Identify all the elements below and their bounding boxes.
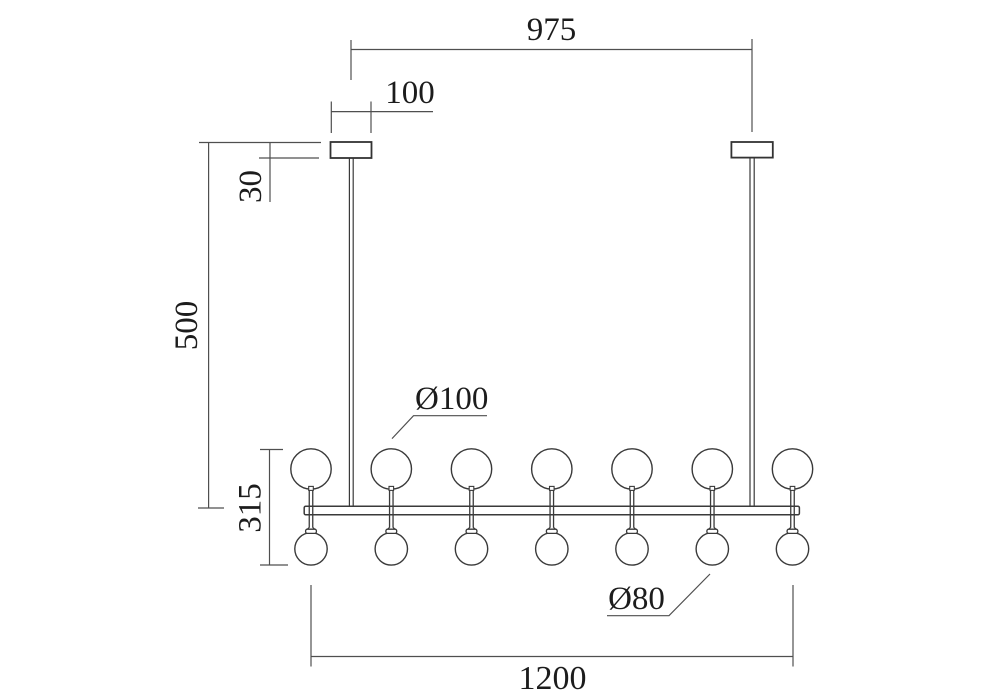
left ceiling canopy	[331, 142, 372, 158]
top stem cap 3	[469, 486, 474, 490]
svg-text:500: 500	[169, 301, 205, 351]
svg-text:30: 30	[233, 170, 269, 203]
lamp stem 4 (through bar)	[548, 489, 556, 530]
extension line from canopy bottom	[259, 157, 319, 159]
svg-text:1200: 1200	[519, 660, 587, 697]
top globe 2 (Ø100)	[371, 449, 411, 489]
dimension 30: line	[269, 143, 271, 203]
dimension 500: line	[208, 143, 210, 508]
bottom globe 2 (Ø80)	[375, 533, 407, 565]
lamp stem 6 (through bar)	[708, 489, 716, 530]
leader for Ø80	[607, 574, 710, 616]
dimension 1200: left extension line	[310, 585, 312, 667]
top globe 1 (Ø100)	[291, 449, 331, 489]
bottom globe 5 (Ø80)	[616, 533, 648, 565]
dimension 315: line	[269, 450, 271, 566]
left suspension rod	[349, 158, 353, 506]
top stem cap 6	[710, 486, 715, 490]
bottom globe collar 2	[386, 529, 397, 533]
top stem cap 5	[630, 486, 635, 490]
dimension 975: left extension tick	[350, 40, 352, 80]
dimension 100: left extension tick	[330, 102, 332, 134]
lamp stem 2 (through bar)	[387, 489, 395, 530]
dimension 315: top extension line	[260, 449, 283, 451]
svg-text:100: 100	[385, 75, 435, 111]
bottom globe collar 4	[546, 529, 557, 533]
leader for Ø100	[392, 416, 487, 439]
svg-text:315: 315	[233, 483, 269, 533]
lamp stem 3 (through bar)	[468, 489, 476, 530]
svg-text:Ø80: Ø80	[608, 581, 665, 617]
svg-text:Ø100: Ø100	[415, 381, 488, 417]
bottom globe 6 (Ø80)	[696, 533, 728, 565]
dimension 315: bottom extension line	[260, 564, 288, 566]
dimension 1200: right extension line	[792, 585, 794, 667]
top globe 7 (Ø100)	[772, 449, 812, 489]
dimension 975: right extension line	[751, 39, 753, 132]
bottom globe collar 1	[306, 529, 317, 533]
extension line from canopy top	[199, 142, 321, 144]
top globe 6 (Ø100)	[692, 449, 732, 489]
right suspension rod	[750, 158, 754, 507]
dimension 1200: line	[311, 656, 793, 658]
dimension 100: right extension tick	[370, 102, 372, 134]
top stem cap 2	[389, 486, 394, 490]
dimension 975: line	[351, 49, 752, 51]
bottom globe collar 6	[707, 529, 718, 533]
bottom globe 1 (Ø80)	[295, 533, 327, 565]
dimension 500: bottom tick	[198, 507, 224, 509]
bottom globe collar 5	[627, 529, 638, 533]
lamp stem 7 (through bar)	[789, 489, 797, 530]
top stem cap 1	[309, 486, 314, 490]
lamp stem 1 (through bar)	[307, 489, 315, 530]
bottom globe collar 7	[787, 529, 798, 533]
horizontal bar	[304, 506, 799, 515]
bottom globe collar 3	[466, 529, 477, 533]
dimension 100: line	[331, 111, 433, 113]
bottom globe 7 (Ø80)	[776, 533, 808, 565]
top globe 3 (Ø100)	[451, 449, 491, 489]
right ceiling canopy	[731, 142, 772, 158]
lamp stem 5 (through bar)	[628, 489, 636, 530]
top globe 5 (Ø100)	[612, 449, 652, 489]
svg-text:975: 975	[527, 12, 577, 48]
top stem cap 4	[550, 486, 555, 490]
bottom globe 3 (Ø80)	[455, 533, 487, 565]
top globe 4 (Ø100)	[532, 449, 572, 489]
top stem cap 7	[790, 486, 795, 490]
bottom globe 4 (Ø80)	[536, 533, 568, 565]
